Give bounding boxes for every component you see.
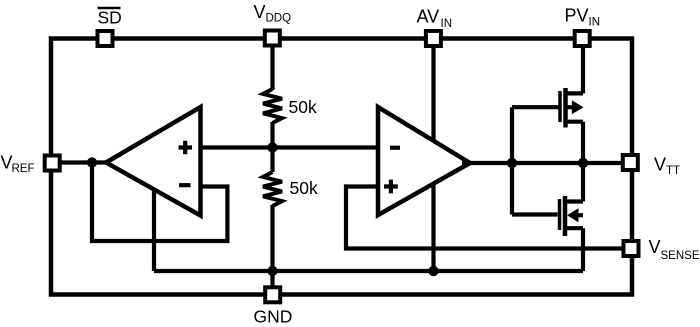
node ground rail / GND pin tap — [267, 266, 277, 276]
wire gate of Q2 — [512, 212, 558, 216]
label SD with overline — [98, 8, 122, 28]
pin SD — [98, 31, 113, 46]
wire R2 bottom to ground rail — [270, 205, 274, 271]
IC boundary box — [51, 39, 632, 295]
node U2 ground tap on ground rail — [428, 266, 438, 276]
wire Q1 source to VTT node — [581, 122, 585, 163]
pin PVIN — [575, 31, 590, 46]
transistor Q2 (lower MOSFET) — [560, 196, 584, 236]
U1 - input symbol — [179, 183, 191, 187]
svg-text:DDQ: DDQ — [266, 12, 292, 24]
svg-text:IN: IN — [441, 18, 453, 30]
svg-text:V: V — [649, 237, 661, 257]
svg-text:SENSE: SENSE — [661, 250, 700, 262]
svg-text:AV: AV — [417, 7, 440, 27]
svg-text:REF: REF — [12, 163, 35, 175]
pin VTT — [623, 155, 638, 170]
wire Q2 source to ground rail — [581, 228, 585, 271]
label VREF — [1, 152, 35, 175]
wire gate of Q1 — [512, 105, 559, 109]
wire U1 ground tap — [152, 185, 156, 271]
resistor R1 50k — [263, 89, 282, 123]
node VTT / FET junction — [578, 158, 588, 168]
op-amp U2 — [378, 107, 470, 215]
svg-text:PV: PV — [565, 5, 589, 25]
pin VSENSE — [624, 241, 639, 256]
wire U1 feedback loop output to - input — [92, 163, 227, 242]
svg-text:50k: 50k — [290, 178, 318, 198]
label VTT — [654, 155, 680, 177]
wire VREF pin to op-amp U1 output — [60, 160, 107, 164]
wire ground rail — [154, 269, 583, 273]
wire R1 bottom to divider node — [270, 122, 274, 148]
svg-text:50k: 50k — [289, 97, 317, 117]
node divider midpoint — [267, 142, 277, 152]
wire ground rail to GND pin — [270, 271, 274, 289]
resistor R2 50k — [263, 172, 282, 206]
node U1 output — [87, 157, 97, 167]
label AVIN — [417, 7, 453, 30]
label PVIN — [565, 5, 601, 28]
pin AVIN — [426, 31, 441, 46]
pin GND — [265, 287, 280, 302]
pin VDDQ — [265, 31, 280, 46]
node gate drive tap — [507, 158, 517, 168]
U2 + input symbol — [384, 180, 398, 194]
svg-text:GND: GND — [254, 306, 293, 326]
wire VDDQ pin to R1 — [270, 47, 274, 90]
svg-text:TT: TT — [666, 165, 680, 177]
wire U2 + input to VSENSE — [346, 187, 622, 249]
wire U2 output to VTT pin — [462, 161, 622, 165]
wire divider node: op-amp U1 + input to op-amp U2 - input — [201, 145, 379, 149]
transistor Q1 (upper MOSFET) — [560, 88, 584, 128]
svg-text:V: V — [254, 2, 266, 22]
wire Q2 drain to VTT node — [581, 163, 585, 202]
label VSENSE — [649, 237, 700, 262]
label VDDQ — [254, 2, 292, 24]
pin VREF — [45, 156, 60, 171]
wire gate bus vertical — [510, 107, 514, 214]
wire PVIN pin to Q1 drain — [581, 47, 585, 93]
svg-text:IN: IN — [589, 17, 601, 29]
op-amp U1 — [106, 107, 201, 216]
U2 - input symbol — [390, 146, 400, 150]
svg-text:SD: SD — [98, 8, 122, 28]
wire divider node to R2 — [270, 148, 274, 173]
wire AVIN pin down through U2 to ground rail — [431, 47, 435, 271]
svg-text:V: V — [654, 155, 666, 175]
U1 + input symbol — [179, 141, 193, 155]
